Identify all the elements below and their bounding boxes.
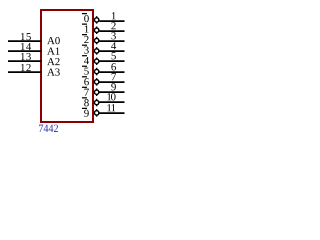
inversion bubble pin 4: [94, 47, 98, 55]
pin number 4: [111, 42, 116, 49]
wire input pin 12: [8, 71, 42, 73]
pin number 11: [107, 104, 115, 111]
pin number 10: [107, 93, 115, 100]
output label 4 active-low (overbar): [82, 56, 89, 64]
inversion bubble pin 11: [94, 109, 98, 116]
pin number 14: [21, 43, 31, 50]
wire output pin 3: [99, 40, 124, 42]
output label 5 active-low (overbar): [82, 66, 89, 75]
wire output pin 2: [99, 30, 124, 32]
inversion bubble pin 5: [94, 57, 98, 65]
wire output pin 1: [99, 20, 124, 22]
pin number 15: [21, 33, 31, 40]
wire output pin 6: [99, 71, 124, 73]
output label 3 active-low (overbar): [82, 45, 89, 54]
inversion bubble pin 3: [94, 37, 98, 44]
output label 6 active-low (overbar): [82, 77, 89, 86]
inversion bubble pin 10: [94, 99, 98, 107]
wire output pin 4: [99, 50, 124, 52]
IC body U1 7442 BCD-to-decimal decoder: [41, 10, 93, 122]
input label A2: [47, 58, 59, 65]
pin number 13: [21, 53, 31, 60]
wire output pin 11: [99, 112, 124, 114]
output label 0 active-low (overbar): [82, 14, 89, 23]
pin number 7: [112, 73, 116, 80]
output label 8 active-low (overbar): [82, 98, 89, 107]
wire input pin 13: [8, 60, 42, 62]
pin number 12: [21, 64, 31, 71]
inversion bubble pin 6: [94, 68, 98, 75]
wire output pin 10: [99, 101, 124, 103]
wire output pin 5: [99, 60, 124, 62]
pin number 3: [111, 32, 115, 39]
pin number 6: [111, 63, 116, 70]
pin number 9: [111, 83, 116, 90]
part value label 7442: [39, 125, 58, 132]
inversion bubble pin 7: [94, 78, 98, 86]
output label 7 active-low (overbar): [82, 87, 89, 95]
inversion bubble pin 9: [94, 88, 98, 96]
output label 9 active-low (overbar): [82, 108, 89, 117]
output label 2 active-low (overbar): [82, 35, 89, 43]
input label A0: [47, 37, 60, 44]
wire input pin 15: [8, 40, 42, 42]
inversion bubble pin 1: [94, 16, 98, 24]
pin number 5: [112, 52, 116, 59]
input label A1: [47, 47, 59, 54]
input label A3: [47, 68, 60, 75]
pin number 2: [111, 22, 115, 29]
pin number 1: [112, 12, 116, 19]
wire input pin 14: [8, 50, 42, 52]
output label 1 active-low (overbar): [82, 24, 89, 32]
wire output pin 9: [99, 91, 124, 93]
inversion bubble pin 2: [94, 26, 98, 34]
wire output pin 7: [99, 81, 124, 83]
